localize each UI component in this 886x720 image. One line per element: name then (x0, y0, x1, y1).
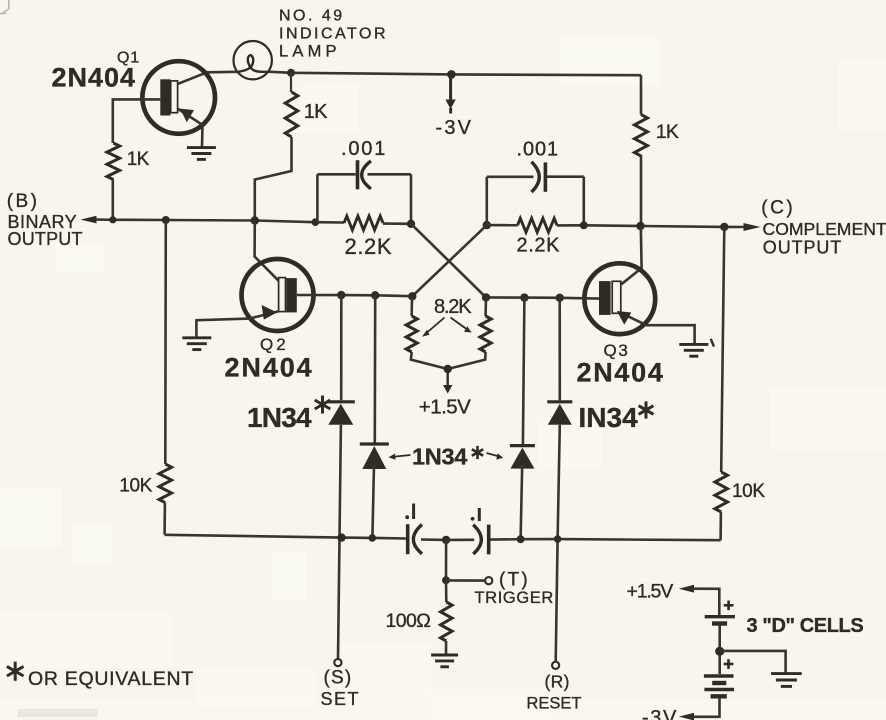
svg-text:10K: 10K (119, 476, 152, 497)
capacitor .001 right plate (544, 162, 548, 191)
node dot left-mid diode bottom (369, 534, 377, 542)
wire Q1 base lead (113, 99, 161, 143)
svg-text:3 "D" CELLS: 3 "D" CELLS (747, 615, 864, 637)
node dot trigger tap (442, 536, 450, 544)
resistor 2.2K (left) (344, 216, 383, 230)
capacitor .1 left curved plate (413, 525, 422, 554)
node dot left network right end (407, 220, 415, 228)
arrow battery -3V arrowhead (679, 713, 694, 720)
wire 2.2K left stub (487, 224, 518, 227)
wire trigger stub (446, 579, 485, 582)
svg-text:2N404: 2N404 (52, 62, 137, 92)
node dot 8.2K common (444, 365, 452, 373)
node dot left-mid diode top (371, 291, 379, 299)
wire crossover right-to-left diagonal (412, 225, 487, 296)
label -3V (top) (436, 117, 474, 139)
label (S) (324, 668, 353, 689)
label IN34* (right) (579, 401, 654, 433)
svg-text:10K: 10K (732, 481, 765, 502)
wire battery ground tap (720, 651, 786, 673)
transistor Q1 circle (142, 61, 215, 134)
wire cap loop left vertical (316, 174, 319, 222)
battery cell 1 short plate (712, 621, 727, 625)
svg-text:1K: 1K (127, 149, 150, 170)
node dot 2.2K right end (580, 221, 588, 229)
wire Q2 base lead (297, 294, 342, 297)
label pointer 1N34 left (389, 454, 411, 460)
transistor Q1 base bar (black) (160, 79, 170, 115)
diode 1N34 set (left outer) (327, 402, 355, 425)
wire lamp junction down (290, 73, 292, 92)
wire left 8.2K bottom (411, 352, 448, 369)
diode 1N34 reset (right outer) (547, 402, 572, 425)
label +1.5V (battery) (627, 581, 674, 603)
svg-text:SET: SET (321, 689, 361, 709)
label 10K (left) (119, 476, 152, 497)
transistor Q1 base bar (white) (171, 81, 178, 113)
wire Q3 base line (486, 296, 560, 299)
label 1N34* (middle) (412, 444, 483, 470)
label 1N34* (left) (247, 396, 330, 434)
wire 1K down to Q2 collector node (255, 137, 292, 221)
diode 1N34 (right middle) (510, 446, 535, 469)
arrow battery +1.5V arrowhead (679, 585, 694, 593)
wire right 8.2K bottom (448, 352, 486, 369)
label 1K (left) (127, 149, 150, 170)
svg-text:+1.5V: +1.5V (419, 395, 471, 418)
label BINARY (8, 212, 78, 232)
svg-text:-3V: -3V (642, 707, 678, 720)
svg-text:INDICATOR: INDICATOR (279, 25, 388, 42)
wire right cap loop top right (547, 175, 584, 178)
capacitor .001 left plate (356, 160, 360, 189)
svg-text:1N34: 1N34 (247, 402, 312, 433)
label .001 (left) (341, 138, 387, 160)
label 2N404 (Q2) (225, 352, 314, 382)
svg-text:2N404: 2N404 (577, 357, 665, 387)
wire cap loop top left (317, 173, 355, 176)
ground Q3 emitter (679, 344, 708, 356)
node dot trigger junction (442, 576, 450, 584)
transistor Q2 base bar (black) (286, 278, 296, 312)
svg-text:100Ω: 100Ω (386, 610, 431, 632)
lamp filament loop (238, 55, 268, 72)
svg-text:OUTPUT: OUTPUT (8, 229, 83, 249)
svg-text:OUTPUT: OUTPUT (763, 237, 842, 257)
battery cell 2 short plate (712, 681, 726, 685)
label 2.2K (right) (517, 235, 561, 257)
transistor Q1 emitter arrow (180, 109, 194, 123)
wire Q2 base line (341, 295, 412, 296)
label RESET (527, 694, 582, 712)
svg-text:1K: 1K (304, 101, 328, 123)
svg-text:2.2K: 2.2K (345, 234, 393, 259)
battery plus sign (bottom cell) (724, 659, 734, 669)
transistor Q2 emitter arrow (262, 305, 277, 320)
wire left-mid diode column lower (372, 465, 374, 538)
battery plus sign (top cell) (724, 601, 734, 611)
resistor 1K (Q3 load) (635, 115, 648, 157)
wire Q3 emitter lead (621, 313, 695, 343)
node dot right network left end (483, 221, 491, 229)
label .1 (left) (405, 504, 413, 520)
label (T) (499, 570, 530, 591)
svg-text:(C): (C) (761, 198, 795, 219)
wire right cap loop left vertical (485, 177, 488, 225)
wire binary output line (94, 220, 344, 223)
battery cell 1 long plate (705, 615, 735, 618)
ground 100 ohm (431, 655, 458, 667)
wire left 10K column upper (164, 220, 167, 464)
wire left 10K column lower (163, 503, 166, 535)
svg-text:2N404: 2N404 (225, 352, 314, 382)
battery cell 3 short plate (711, 694, 727, 698)
wire rail corner down (640, 75, 643, 114)
svg-text:2.2K: 2.2K (517, 235, 561, 257)
capacitor .1 left plate (406, 524, 410, 554)
ground Q1 emitter (187, 148, 216, 160)
label COMPLEMENT (763, 219, 886, 239)
svg-text:-3V: -3V (436, 117, 474, 139)
wire cap loop top right (368, 173, 412, 176)
label 3 D CELLS (747, 615, 864, 637)
label OUTPUT (B) (8, 229, 83, 249)
node dot right 8.2K top (482, 293, 490, 301)
label INDICATOR (279, 25, 388, 42)
label 2.2K (left) (345, 234, 393, 259)
arrow binary output arrowhead (81, 216, 97, 224)
node dot left 10K junction (162, 216, 170, 224)
transistor Q3 base bar (white) (612, 281, 621, 313)
wire right 10K column lower (719, 512, 722, 540)
svg-text:IN34: IN34 (579, 402, 639, 433)
transistor Q3 emitter arrow (617, 311, 631, 325)
wire +1.5V arrow stem (447, 369, 449, 386)
resistor 10K (right) (715, 472, 728, 512)
wire bottom line right (491, 539, 721, 540)
resistor 1K (Q2 load) (285, 92, 298, 137)
wire bottom line center-left (421, 538, 446, 541)
svg-text:RESET: RESET (527, 694, 582, 712)
wire trigger column (445, 540, 448, 580)
wire Q2 collector lead (255, 221, 279, 282)
svg-text:.001: .001 (517, 139, 560, 161)
wire bottom line left (165, 535, 406, 539)
transistor Q2 base bar (white) (279, 278, 286, 312)
wire 100ohm bottom stub (445, 641, 448, 654)
battery cell 2 long plate (704, 674, 734, 677)
label NO. 49 (279, 8, 345, 25)
node dot right 1K junction (636, 222, 644, 230)
label Q3 (604, 341, 630, 360)
arrow +1.5V arrowhead (443, 385, 452, 394)
wire reset diode column upper (558, 298, 561, 400)
svg-text:TRIGGER: TRIGGER (475, 589, 554, 607)
svg-text:COMPLEMENT: COMPLEMENT (763, 219, 886, 239)
wire right cap loop top left (487, 176, 534, 179)
wire cap loop right vertical (410, 174, 413, 224)
node dot Q2 collector junction (251, 216, 259, 224)
terminal trigger circle (485, 577, 492, 584)
node dot set crossing (337, 533, 345, 541)
node dot right-mid diode bottom (517, 535, 525, 543)
svg-text:NO. 49: NO. 49 (279, 8, 345, 25)
capacitor .001 right curved plate (532, 162, 540, 192)
wire battery bottom lead (693, 698, 720, 717)
svg-text:(S): (S) (324, 668, 353, 689)
label TRIGGER (475, 589, 554, 607)
label (C) (761, 198, 795, 219)
node junction dot -3V tap (447, 70, 456, 79)
label 2N404 (Q1) (52, 62, 137, 92)
wire right cap loop right vertical (582, 177, 585, 226)
wire right-mid diode column upper (523, 298, 525, 445)
node dot right 10K junction (720, 223, 728, 231)
wire battery top lead (693, 589, 720, 615)
label * OR EQUIVALENT (7, 662, 194, 690)
wire 100ohm top stub (445, 580, 448, 602)
wire right-mid diode column lower (521, 465, 523, 539)
svg-text:1N34: 1N34 (412, 444, 467, 470)
wire Q3 collector lead (621, 226, 641, 284)
node dot set diode top (337, 291, 345, 299)
svg-text:(R): (R) (545, 672, 570, 692)
svg-text:(T): (T) (499, 570, 530, 591)
resistor 2.2K (right) (518, 218, 558, 232)
svg-text:Q2: Q2 (260, 335, 289, 354)
wire Q1 collector to lamp (177, 72, 238, 85)
wire set diode column upper (340, 295, 343, 400)
node dot cap loop left (312, 218, 320, 226)
wire right 10K column upper (721, 227, 724, 472)
label 1K (right) (656, 121, 679, 143)
diode 1N34 (left middle) (360, 444, 389, 469)
node dot right-mid diode top (520, 293, 528, 301)
arrow -3V arrowhead (445, 100, 455, 114)
transistor Q3 circle (584, 263, 655, 334)
label 8.2K (434, 296, 472, 318)
wire set diode column lower (338, 425, 341, 659)
label 1K (middle) (304, 101, 328, 123)
wire Q3 base lead (560, 296, 599, 299)
terminal set circle (334, 659, 341, 666)
wire Q1 emitter lead (178, 109, 203, 147)
transistor Q3 base bar (black) (599, 281, 611, 315)
label OUTPUT (C) (763, 237, 842, 257)
wire complement line (557, 225, 746, 227)
corner registration mark (0, 0, 9, 14)
label SET (321, 689, 361, 709)
node dot left 1K junction (109, 216, 116, 223)
svg-text:8.2K: 8.2K (434, 296, 472, 318)
resistor 10K (left) (159, 464, 172, 503)
node junction dot under lamp (287, 69, 295, 77)
resistor 8.2K (right) (480, 316, 491, 352)
ground Q2 emitter (182, 338, 211, 350)
svg-text:.001: .001 (341, 138, 387, 160)
label 2N404 (Q3) (577, 357, 665, 387)
wire bottom line center-right (446, 538, 474, 541)
svg-text:LAMP: LAMP (279, 42, 341, 60)
label -3V (battery) (642, 707, 678, 720)
label 10K (right) (732, 481, 765, 502)
label LAMP (279, 42, 341, 60)
label pointer 1N34 right (487, 453, 504, 460)
wire left 8.2K top stub (410, 296, 413, 316)
label Q1 (117, 49, 140, 66)
wire 2.2K right stub (383, 222, 411, 225)
resistor 100 ohm (441, 602, 453, 641)
stray tick mark (711, 339, 714, 347)
node dot reset crossing (554, 535, 562, 543)
battery cell 3 long plate (704, 688, 734, 691)
capacitor .001 left curved plate (362, 161, 371, 189)
wire right 8.2K top stub (484, 297, 487, 316)
wire top supply rail from lamp to right corner (268, 72, 641, 76)
terminal reset circle (552, 662, 559, 669)
svg-text:1K: 1K (656, 121, 679, 143)
label .1 (right) (471, 508, 480, 521)
capacitor .1 right plate (487, 525, 491, 555)
capacitor .1 right curved plate (473, 525, 481, 554)
indicator lamp bulb circle (234, 41, 272, 79)
wire Q2 emitter lead (196, 311, 278, 336)
resistor 1K (Q1 base) (107, 143, 120, 180)
node dot reset diode top (556, 294, 564, 302)
label 100 ohm (386, 610, 431, 632)
wire left-mid diode column upper (373, 295, 376, 442)
label .001 (right) (517, 139, 560, 161)
arrow complement output arrowhead (744, 223, 761, 231)
label Q2 (260, 335, 289, 354)
label pointer 8.2K left (422, 318, 445, 337)
label +1.5V (divider) (419, 395, 471, 418)
svg-text:+1.5V: +1.5V (627, 581, 674, 603)
wire crossover left-to-right diagonal (411, 224, 486, 298)
resistor 8.2K (left) (406, 316, 417, 352)
svg-text:OR EQUIVALENT: OR EQUIVALENT (28, 668, 194, 690)
wire -3V arrow stem (449, 77, 452, 100)
wire 1K down to complement line (640, 155, 643, 226)
wire 1K to binary line (112, 179, 115, 220)
label (B) (7, 191, 40, 212)
node dot left 8.2K top (408, 292, 416, 300)
svg-text:(B): (B) (7, 191, 40, 212)
ground battery (771, 674, 802, 687)
transistor Q2 circle (242, 259, 314, 331)
label (R) (545, 672, 570, 692)
label pointer 8.2K right (451, 318, 472, 333)
wire battery mid lead (718, 626, 721, 675)
node dot battery junction (715, 647, 724, 656)
wire reset diode column lower (556, 425, 560, 662)
